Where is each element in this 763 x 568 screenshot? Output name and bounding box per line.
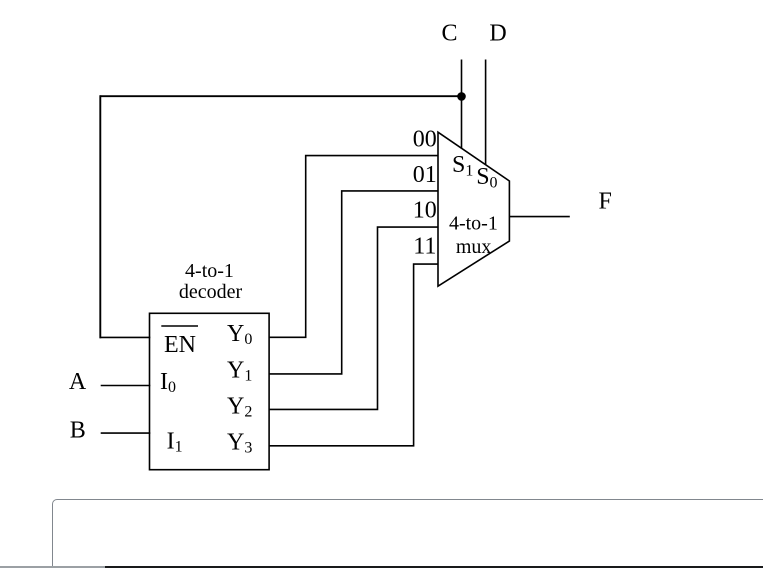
svg-text:Y1: Y1: [227, 357, 252, 384]
wire: input C drop to mux select S1: [461, 60, 463, 149]
svg-text:B: B: [70, 417, 86, 443]
svg-text:mux: mux: [456, 236, 492, 258]
svg-text:4-to-1: 4-to-1: [185, 260, 234, 282]
mux U2: 4-to-1 mux trapezoid body: [438, 132, 509, 286]
svg-text:I1: I1: [167, 429, 183, 456]
wire: decoder Y3 to mux input 11: [269, 264, 438, 446]
svg-text:00: 00: [413, 127, 437, 153]
wire: decoder Y0 to mux input 00: [269, 156, 438, 338]
svg-text:Y2: Y2: [227, 393, 252, 420]
wire: net C vertical run down left side: [99, 95, 101, 338]
svg-text:S1: S1: [452, 152, 473, 180]
wire: input A to decoder I0: [101, 385, 151, 387]
bottom dark scrollbar thumb: [105, 566, 763, 568]
wire: mux output to F: [509, 216, 569, 218]
svg-text:01: 01: [413, 162, 437, 188]
svg-text:Y3: Y3: [227, 430, 252, 457]
wire: net C horizontal run across top: [100, 95, 461, 97]
wire: input D drop to mux select S0: [485, 60, 487, 166]
pin: decoder EN active-low overline: [161, 325, 198, 327]
svg-text:11: 11: [413, 234, 436, 260]
wire: input B to decoder I1: [101, 432, 151, 434]
wire: decoder Y1 to mux input 01: [269, 191, 438, 374]
svg-text:I0: I0: [160, 369, 176, 396]
wire: EN input stub into decoder: [100, 336, 151, 338]
svg-text:Y0: Y0: [227, 321, 252, 348]
svg-text:C: C: [441, 20, 457, 46]
svg-text:EN: EN: [164, 332, 196, 358]
svg-text:A: A: [69, 369, 87, 395]
decoder U1: 4-to-1 decoder box: [150, 313, 270, 469]
svg-text:F: F: [599, 189, 612, 215]
junction dot on net C: [457, 92, 466, 101]
answer card panel: [52, 499, 763, 568]
svg-text:D: D: [489, 20, 506, 46]
wire: decoder Y2 to mux input 10: [269, 227, 438, 409]
svg-text:decoder: decoder: [179, 281, 243, 303]
svg-text:10: 10: [413, 198, 437, 224]
svg-text:S0: S0: [476, 164, 497, 192]
bottom divider line: [0, 566, 763, 567]
svg-text:4-to-1: 4-to-1: [449, 213, 498, 235]
